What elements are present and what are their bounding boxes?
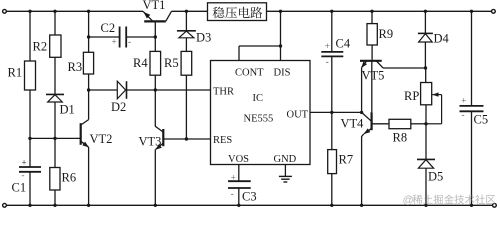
svg-text:R5: R5 xyxy=(164,56,179,70)
wire CONT to DIS column xyxy=(239,45,281,47)
junction bottom rail / VT3 emitter xyxy=(154,204,157,207)
ground xyxy=(279,175,292,177)
svg-text:VT1: VT1 xyxy=(143,0,166,12)
wire R7 top lead xyxy=(331,112,333,149)
wire VT2 emitter lead xyxy=(88,147,90,205)
wire VOS stub xyxy=(238,165,240,182)
junction top rail / R2 xyxy=(53,10,56,13)
svg-text:-: - xyxy=(231,189,234,199)
svg-text:-: - xyxy=(22,170,25,180)
junction top rail / C5 xyxy=(470,10,473,13)
junction VT5 collector / D4 / RP xyxy=(424,66,427,69)
wire VT2 base wire xyxy=(30,137,81,139)
wire D4 top lead xyxy=(424,11,426,33)
junction C2 left / R3 column xyxy=(87,35,90,38)
terminal input + xyxy=(3,9,7,13)
wire D3 top lead xyxy=(185,11,187,31)
wire C5 top lead xyxy=(471,11,473,106)
svg-text:+: + xyxy=(231,172,236,182)
junction bottom rail / D5 xyxy=(424,204,427,207)
svg-text:R2: R2 xyxy=(33,40,48,54)
capacitor C3 xyxy=(228,180,251,182)
resistor R2 xyxy=(50,35,61,57)
junction DIS column / CONT wire xyxy=(279,44,282,47)
capacitor C2 xyxy=(119,27,121,48)
wire R4 bottom lead xyxy=(154,75,156,90)
terminal output - xyxy=(493,203,497,207)
wire DIS column vertical xyxy=(280,11,282,60)
junction bottom rail / C3 xyxy=(237,204,240,207)
svg-text:VT2: VT2 xyxy=(90,132,113,146)
svg-text:THR: THR xyxy=(213,86,234,97)
svg-text:VT5: VT5 xyxy=(362,69,385,83)
svg-text:C1: C1 xyxy=(12,181,27,195)
wire R1 top lead xyxy=(29,11,31,61)
wire VT4 to R8 xyxy=(372,123,389,125)
junction bottom rail / C1 xyxy=(28,204,31,207)
wire top rail from VT1 collector to regulator box xyxy=(172,10,208,12)
svg-text:C3: C3 xyxy=(242,189,257,203)
svg-text:GND: GND xyxy=(274,154,297,165)
wire C1 bottom lead xyxy=(29,172,31,206)
svg-text:IC: IC xyxy=(253,93,264,104)
svg-text:-: - xyxy=(326,57,329,67)
junction RES wire / R5 xyxy=(185,137,188,140)
watermark juejin community xyxy=(403,194,496,206)
wire C2 right lead xyxy=(126,36,155,38)
resistor R8 xyxy=(389,119,411,128)
resistor R1 xyxy=(25,61,36,90)
junction base wire / R1 / C1 xyxy=(28,137,31,140)
wire VT2 collector lead xyxy=(88,90,90,120)
wire THR node left segment xyxy=(89,89,118,91)
wire R1 bottom lead xyxy=(29,90,31,138)
op-amp U1 IC NE555 box xyxy=(211,61,311,165)
diode D3 zener xyxy=(177,30,196,32)
resistor R9 xyxy=(367,24,377,45)
wire D3 to R5 xyxy=(185,38,187,52)
wire R8 to RP bottom node xyxy=(411,123,426,125)
wire VT5 collector to D4 node xyxy=(383,67,426,69)
svg-text:VOS: VOS xyxy=(228,154,249,165)
svg-text:OUT: OUT xyxy=(287,109,309,120)
svg-text:R6: R6 xyxy=(62,171,77,185)
wire C5 bottom lead xyxy=(471,111,473,205)
svg-text:R1: R1 xyxy=(8,66,23,80)
svg-text:D1: D1 xyxy=(60,103,75,117)
svg-text:C5: C5 xyxy=(474,113,489,127)
svg-text:VT4: VT4 xyxy=(341,117,365,131)
wire R9 to VT5 base xyxy=(371,45,373,60)
svg-text:D2: D2 xyxy=(111,100,126,114)
junction THR wire / R4 / VT3 collector xyxy=(154,88,157,91)
resistor R7 xyxy=(328,150,337,174)
wire CONT stub xyxy=(238,46,240,61)
junction bottom rail / R6 xyxy=(53,204,56,207)
svg-text:R3: R3 xyxy=(68,60,83,74)
junction top rail / R1 xyxy=(28,10,31,13)
junction top rail / regulator output column xyxy=(279,10,282,13)
wire R7 bottom lead xyxy=(331,174,333,206)
diode D1 xyxy=(46,93,64,95)
wire R9 top lead xyxy=(371,11,373,23)
resistor R3 xyxy=(83,52,93,74)
wire D4 to RP node xyxy=(424,42,426,68)
svg-text:R4: R4 xyxy=(133,56,148,70)
svg-text:C2: C2 xyxy=(101,21,116,35)
junction bottom rail / VT2 emitter xyxy=(87,204,90,207)
wire C2 left lead xyxy=(89,36,120,38)
diode D4 zener xyxy=(418,32,433,34)
wire VT5 emitter to VT4 base node xyxy=(361,68,363,113)
junction top rail / D3 xyxy=(185,10,188,13)
svg-text:@: @ xyxy=(403,194,414,206)
svg-text:+: + xyxy=(325,41,330,51)
wire bottom negative rail xyxy=(6,204,492,206)
transistor VT3 xyxy=(155,126,163,132)
svg-text:CONT: CONT xyxy=(235,67,264,78)
svg-text:+: + xyxy=(22,158,27,168)
wire C1 top lead xyxy=(29,138,31,167)
svg-text:+: + xyxy=(461,95,466,105)
svg-text:D3: D3 xyxy=(196,31,211,45)
wire OUT to VT4 base node xyxy=(332,111,362,113)
wire THR node right segment xyxy=(127,89,211,91)
wire RP top lead xyxy=(425,68,427,83)
junction top rail / R9 xyxy=(370,10,373,13)
diode D5 zener xyxy=(417,158,435,160)
wire R2 top lead xyxy=(54,11,56,35)
wire R3 to THR node xyxy=(88,74,90,90)
svg-text:D4: D4 xyxy=(434,32,450,46)
regulator block 稳压电路 xyxy=(208,3,267,21)
junction bottom rail / VT4 emitter xyxy=(360,204,363,207)
junction OUT / C4 / R7 xyxy=(330,111,333,114)
wire D5 bottom lead xyxy=(425,168,427,205)
junction top rail / C4 xyxy=(330,10,333,13)
svg-text:-: - xyxy=(128,37,131,47)
svg-text:VT3: VT3 xyxy=(139,135,162,149)
wire R3 top lead xyxy=(88,11,90,52)
junction top rail / R3 xyxy=(87,10,90,13)
svg-text:+: + xyxy=(112,37,117,47)
transistor VT1 xyxy=(143,11,153,21)
svg-text:NE555: NE555 xyxy=(244,113,274,124)
wire VT3 base to RES pin xyxy=(163,138,210,140)
wire R2 to D1 xyxy=(54,57,56,94)
wire VT3 emitter lead xyxy=(154,150,156,206)
junction top rail / D4 xyxy=(424,10,427,13)
wire C4 bottom lead xyxy=(331,56,333,112)
wire VT3 collector lead xyxy=(154,90,156,127)
wire RP bottom lead xyxy=(425,105,427,124)
transistor VT2 xyxy=(81,120,89,125)
svg-text:-: - xyxy=(462,110,465,120)
wire R6 top lead xyxy=(54,138,56,167)
wire VT5 base to VT4 collector xyxy=(371,61,373,112)
wire D1 to junction xyxy=(54,102,56,138)
wire GND stub xyxy=(284,165,286,177)
transistor VT5 xyxy=(360,60,382,62)
terminal input - xyxy=(3,203,7,207)
wire R5 to RES wire xyxy=(185,75,187,139)
svg-text:DIS: DIS xyxy=(274,67,291,78)
wire D5 top lead xyxy=(425,124,427,160)
svg-text:RES: RES xyxy=(213,135,232,146)
junction base wire / D1 / R6 xyxy=(53,137,56,140)
junction C2 right / VT1 base / R4 xyxy=(154,35,157,38)
resistor R5 xyxy=(181,51,192,75)
terminal output + xyxy=(492,9,496,13)
junction VT4 base node xyxy=(360,111,363,114)
wire C3 bottom lead xyxy=(238,188,240,205)
capacitor C5 xyxy=(460,105,484,107)
svg-text:RP: RP xyxy=(404,89,419,103)
wire top rail right of regulator box xyxy=(267,10,492,12)
wire C4 top lead xyxy=(331,11,333,52)
wire VT1 base lead xyxy=(154,21,156,51)
svg-text:R7: R7 xyxy=(339,153,354,167)
potentiometer RP xyxy=(421,83,432,105)
junction THR wire / R3 / VT2 collector xyxy=(87,88,90,91)
svg-text:D5: D5 xyxy=(428,170,443,184)
transistor VT4 xyxy=(362,112,371,120)
junction bottom rail / R7 xyxy=(330,204,333,207)
junction R8 / RP bottom / D5 xyxy=(424,122,427,125)
diode D2 xyxy=(117,81,125,99)
wire OUT pin to C4 column xyxy=(310,111,332,113)
capacitor C1 xyxy=(19,166,41,168)
junction bottom rail / C5 xyxy=(470,204,473,207)
svg-text:R9: R9 xyxy=(379,27,394,41)
resistor R4 xyxy=(150,51,161,75)
svg-text:R8: R8 xyxy=(393,131,408,145)
svg-text:C4: C4 xyxy=(336,37,351,51)
wire VT4 emitter lead xyxy=(361,136,363,205)
wire top positive rail left segment xyxy=(6,10,143,12)
resistor R6 xyxy=(50,168,60,191)
capacitor C4 xyxy=(321,51,343,53)
wire R6 bottom lead xyxy=(54,190,56,205)
